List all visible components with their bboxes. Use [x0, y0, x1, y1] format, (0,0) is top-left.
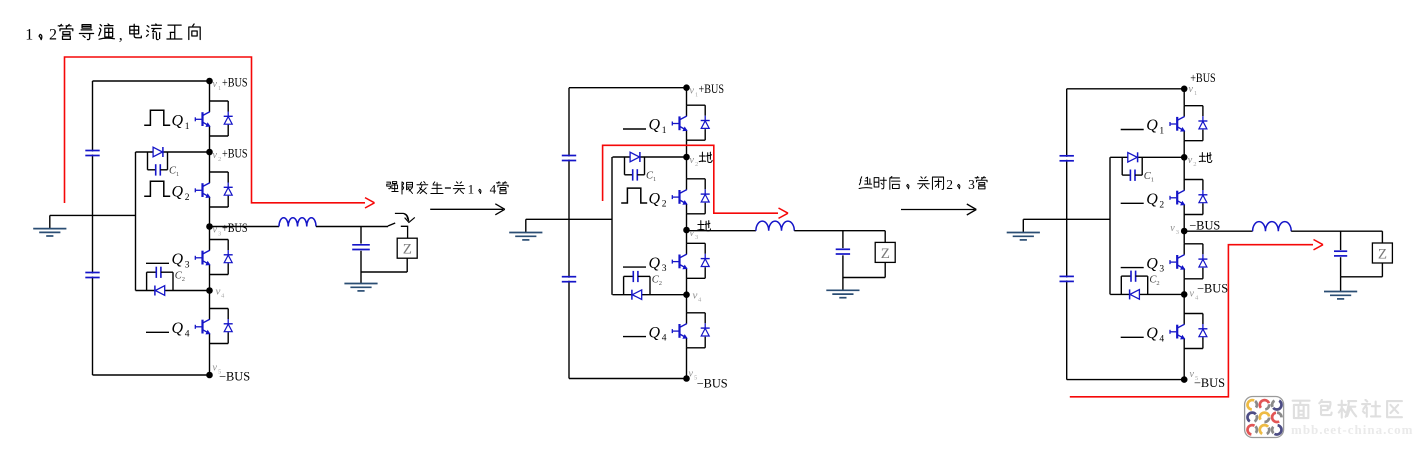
- wire output B: [687, 230, 756, 232]
- svg-text:3: 3: [968, 177, 975, 192]
- freewheel diode of Q4-B: [701, 323, 710, 337]
- svg-text:4: 4: [1159, 334, 1164, 344]
- wire bottom rail: [1067, 379, 1185, 381]
- svg-text:1: 1: [468, 182, 475, 197]
- svg-text:2: 2: [946, 177, 953, 192]
- watermark logo ring 0,0: [1247, 400, 1254, 409]
- gate drive waveform Q1-C: [1121, 129, 1144, 131]
- annotation 1: hard limit occurs - turn off tubes 1,4: [387, 182, 398, 192]
- clamp diode D1 (points right): [153, 147, 163, 157]
- transistor Q2-B (IGBT): [672, 179, 705, 214]
- gate drive waveform Q4-A: [146, 331, 169, 333]
- svg-text:3: 3: [185, 260, 190, 270]
- ground load C: [1340, 277, 1342, 292]
- gate drive waveform Q3-A: [146, 262, 169, 264]
- capacitor bus lower B: [562, 276, 576, 278]
- wire neutral: [50, 214, 136, 216]
- gate drive waveform Q4-B: [623, 336, 646, 338]
- freewheel diode of Q1-B: [701, 116, 710, 130]
- svg-text:Q: Q: [172, 184, 184, 201]
- svg-text:v: v: [690, 228, 695, 239]
- freewheel diode of Q2-A: [224, 183, 233, 197]
- svg-text:Q: Q: [649, 255, 661, 272]
- freewheel diode of Q1-A: [224, 112, 233, 126]
- wire clamp-lower horizontal: [1110, 293, 1184, 295]
- svg-text:Q: Q: [172, 251, 184, 268]
- wire main rail segments: [209, 81, 211, 101]
- wire top rail: [93, 80, 210, 82]
- svg-text:mbb.eet-china.com: mbb.eet-china.com: [1291, 422, 1413, 437]
- freewheel diode of Q2-B: [701, 189, 710, 203]
- wire output A: [210, 226, 280, 228]
- ground load A: [360, 272, 362, 284]
- red current path circuit C: [1070, 245, 1313, 397]
- wire neutral: [526, 218, 612, 220]
- transistor Q1-A (IGBT): [195, 101, 228, 136]
- wire after inductor: [316, 226, 361, 228]
- svg-text:1: 1: [1151, 176, 1154, 183]
- gate drive waveform Q3-B: [623, 266, 646, 268]
- svg-text:v: v: [213, 79, 218, 90]
- svg-text:1: 1: [1159, 127, 1164, 137]
- ground symbol B: [525, 219, 527, 232]
- clamp capacitor C2: [1121, 271, 1147, 295]
- svg-text:−BUS: −BUS: [1194, 376, 1225, 390]
- clamp capacitor C2: [624, 271, 650, 295]
- svg-text:2: 2: [695, 161, 698, 168]
- ground symbol A: [49, 215, 51, 228]
- svg-text:Q: Q: [172, 113, 184, 130]
- annotation 2: after delay, close tubes 2,3: [859, 177, 872, 189]
- transistor Q2-C (IGBT): [1170, 180, 1203, 215]
- transistor Q2-A (IGBT): [195, 172, 228, 207]
- gate drive waveform Q2-A: [144, 181, 170, 196]
- svg-text:4: 4: [662, 334, 667, 344]
- svg-text:1: 1: [218, 85, 221, 92]
- node v3-B: [683, 227, 690, 234]
- svg-text:2: 2: [662, 200, 667, 210]
- svg-text:3: 3: [695, 234, 698, 241]
- filter capacitor B: [836, 231, 850, 278]
- inductor L A: [279, 218, 316, 227]
- svg-text:1: 1: [1194, 90, 1197, 97]
- svg-text:v: v: [1189, 84, 1194, 95]
- capacitor bus lower A: [85, 272, 99, 274]
- svg-text:v: v: [1170, 223, 1175, 234]
- node v5-A: [206, 372, 213, 379]
- node v1-A: [206, 78, 213, 85]
- svg-text:2: 2: [1159, 200, 1164, 210]
- node v2-C: [1181, 154, 1188, 161]
- wire bottom rail: [569, 378, 687, 380]
- gate drive waveform Q4-C: [1121, 336, 1144, 338]
- wire clamp rail: [135, 152, 137, 291]
- node v5-B: [683, 375, 690, 382]
- svg-text:−BUS: −BUS: [697, 377, 728, 391]
- svg-text:v: v: [690, 86, 695, 97]
- watermark logo box: [1245, 397, 1284, 438]
- load Z B: [875, 242, 895, 262]
- gate drive waveform Q2-B: [621, 188, 647, 203]
- wire to load: [884, 231, 886, 243]
- svg-text:2: 2: [218, 156, 221, 163]
- wire output C: [1184, 230, 1252, 232]
- freewheel diode of Q4-A: [224, 319, 233, 333]
- transistor Q3-A (IGBT): [195, 240, 228, 275]
- svg-text:3: 3: [1176, 229, 1179, 236]
- svg-text:−BUS: −BUS: [1197, 282, 1228, 296]
- clamp capacitor C2: [147, 267, 173, 291]
- svg-text:,: ,: [119, 27, 123, 44]
- svg-text:Z: Z: [403, 242, 412, 258]
- wire bottom rail: [93, 374, 210, 376]
- transistor Q4-A (IGBT): [195, 309, 228, 344]
- freewheel diode of Q3-C: [1198, 254, 1207, 267]
- node v2-B: [683, 154, 690, 161]
- capacitor bus upper B: [562, 155, 576, 157]
- watermark logo ring 2,0: [1248, 425, 1255, 434]
- svg-text:2: 2: [49, 27, 57, 44]
- svg-text:2: 2: [659, 280, 662, 287]
- wire after inductor: [1291, 230, 1382, 232]
- svg-text:Q: Q: [649, 190, 661, 207]
- wire clamp-upper horizontal: [136, 151, 210, 153]
- wire clamp rail: [1109, 157, 1111, 294]
- freewheel diode of Q1-C: [1198, 116, 1207, 130]
- svg-text:3: 3: [662, 264, 667, 274]
- svg-text:v: v: [213, 225, 218, 236]
- load Z A: [397, 238, 417, 258]
- node v5-C: [1181, 376, 1188, 383]
- svg-text:v: v: [689, 369, 694, 380]
- freewheel diode of Q3-A: [224, 250, 233, 264]
- ground symbol C: [1022, 219, 1024, 232]
- clamp diode D2 (points left): [1130, 289, 1140, 299]
- svg-text:2: 2: [185, 193, 190, 203]
- node v3-A: [206, 223, 213, 230]
- svg-text:v: v: [693, 290, 698, 302]
- switch opening curved arrow: [395, 212, 403, 214]
- wire left DC rail: [92, 81, 94, 375]
- watermark logo ring 0,2: [1273, 401, 1281, 410]
- transistor Q1-C (IGBT): [1170, 106, 1203, 141]
- svg-text:v: v: [1188, 155, 1193, 166]
- wire clamp-upper horizontal: [613, 156, 687, 158]
- transistor Q4-C (IGBT): [1170, 314, 1203, 349]
- ground load B: [842, 278, 844, 291]
- wire load bottom: [1381, 263, 1383, 277]
- svg-text:Q: Q: [649, 324, 661, 341]
- capacitor bus upper A: [85, 150, 99, 152]
- transistor Q3-C (IGBT): [1170, 244, 1203, 279]
- transistor Q1-B (IGBT): [672, 105, 705, 140]
- clamp diode D1 (points right): [630, 152, 640, 162]
- svg-text:Q: Q: [649, 117, 661, 134]
- svg-text:Z: Z: [1378, 247, 1387, 263]
- svg-text:1: 1: [662, 126, 667, 136]
- watermark logo ring 1,0: [1247, 413, 1255, 422]
- svg-text:Q: Q: [1146, 117, 1158, 134]
- svg-text:Q: Q: [172, 320, 184, 337]
- watermark logo ring 0,1: [1260, 400, 1269, 408]
- watermark logo ring 1,2: [1272, 413, 1279, 422]
- red current path circuit A: [65, 57, 366, 203]
- transition arrow 2: [901, 209, 975, 211]
- gate drive waveform Q3-C: [1121, 267, 1144, 269]
- svg-text:+BUS: +BUS: [699, 82, 725, 96]
- wire load bottom: [884, 262, 886, 277]
- capacitor bus upper C: [1060, 155, 1074, 157]
- node v1-B: [683, 84, 690, 91]
- filter capacitor A: [352, 227, 370, 273]
- wire clamp-lower horizontal: [613, 294, 687, 296]
- wire left DC rail: [568, 88, 570, 379]
- clamp capacitor C1: [1122, 157, 1142, 181]
- svg-text:Q: Q: [1146, 255, 1158, 272]
- watermark text mianbaoban shequ: [1293, 401, 1310, 418]
- svg-text:1: 1: [25, 27, 33, 44]
- svg-text:v: v: [690, 155, 695, 166]
- node v2-A: [206, 149, 213, 156]
- filter capacitor C: [1334, 231, 1347, 277]
- svg-text:+BUS: +BUS: [1190, 71, 1216, 85]
- svg-text:Q: Q: [1146, 191, 1158, 208]
- svg-text:Z: Z: [881, 246, 890, 262]
- svg-text:1: 1: [185, 122, 190, 132]
- inductor L C: [1253, 222, 1292, 232]
- inductor L B: [756, 221, 794, 231]
- clamp diode D2 (points left): [155, 286, 165, 296]
- svg-text:2: 2: [1156, 280, 1159, 287]
- red current path circuit B: [603, 145, 778, 213]
- svg-text:3: 3: [1159, 265, 1164, 275]
- svg-text:4: 4: [185, 329, 190, 339]
- node v4-C: [1181, 291, 1188, 298]
- wire clamp-lower horizontal: [136, 290, 210, 292]
- svg-text:v: v: [213, 150, 218, 161]
- transition arrow 1: [430, 208, 503, 210]
- watermark logo ring 2,2: [1274, 425, 1281, 434]
- clamp capacitor C1: [148, 152, 168, 176]
- wire main rail segments: [1183, 89, 1185, 106]
- node v4-A: [206, 287, 213, 294]
- clamp diode D1 (points right): [1128, 152, 1138, 162]
- switch (opening) A: [361, 223, 408, 238]
- svg-text:3: 3: [218, 231, 221, 238]
- wire after inductor: [794, 230, 885, 232]
- wire top rail: [569, 87, 687, 89]
- freewheel diode of Q2-C: [1198, 190, 1207, 204]
- gate drive waveform Q1-A: [144, 110, 170, 125]
- wire to load: [1381, 231, 1383, 243]
- freewheel diode of Q4-C: [1198, 324, 1207, 338]
- gate drive waveform Q2-C: [1121, 202, 1144, 204]
- clamp diode D2 (points left): [632, 290, 642, 300]
- svg-text:v: v: [216, 286, 221, 298]
- svg-text:−BUS: −BUS: [219, 370, 250, 384]
- svg-text:+BUS: +BUS: [222, 147, 248, 161]
- clamp capacitor C1: [625, 157, 645, 181]
- capacitor bus lower C: [1060, 275, 1074, 277]
- freewheel diode of Q3-B: [701, 254, 710, 267]
- gate drive waveform Q1-B: [623, 128, 646, 130]
- node v1-C: [1181, 86, 1188, 93]
- watermark logo ring 1,1: [1260, 413, 1269, 420]
- node v4-B: [683, 291, 690, 298]
- svg-text:+BUS: +BUS: [222, 76, 248, 90]
- svg-text:+BUS: +BUS: [222, 221, 248, 235]
- svg-text:−BUS: −BUS: [1189, 219, 1220, 233]
- watermark logo ring 2,1: [1260, 425, 1268, 434]
- node v3-C: [1181, 228, 1188, 235]
- transistor Q4-B (IGBT): [672, 313, 705, 348]
- wire left DC rail: [1066, 89, 1068, 380]
- wire top rail: [1067, 88, 1185, 90]
- svg-text:v: v: [213, 363, 218, 374]
- load Z C: [1372, 243, 1392, 263]
- wire clamp rail: [611, 157, 613, 295]
- svg-text:1: 1: [176, 171, 179, 178]
- wire clamp-upper horizontal: [1110, 156, 1184, 158]
- svg-text:v: v: [1190, 289, 1195, 300]
- transistor Q3-B (IGBT): [672, 243, 705, 278]
- svg-text:2: 2: [1193, 161, 1196, 168]
- wire load bottom: [406, 258, 408, 272]
- wire neutral: [1023, 218, 1110, 220]
- svg-text:Q: Q: [1146, 325, 1158, 342]
- wire main rail segments: [686, 88, 688, 106]
- svg-text:1: 1: [653, 176, 656, 183]
- svg-text:2: 2: [182, 276, 185, 283]
- svg-text:4: 4: [490, 182, 497, 197]
